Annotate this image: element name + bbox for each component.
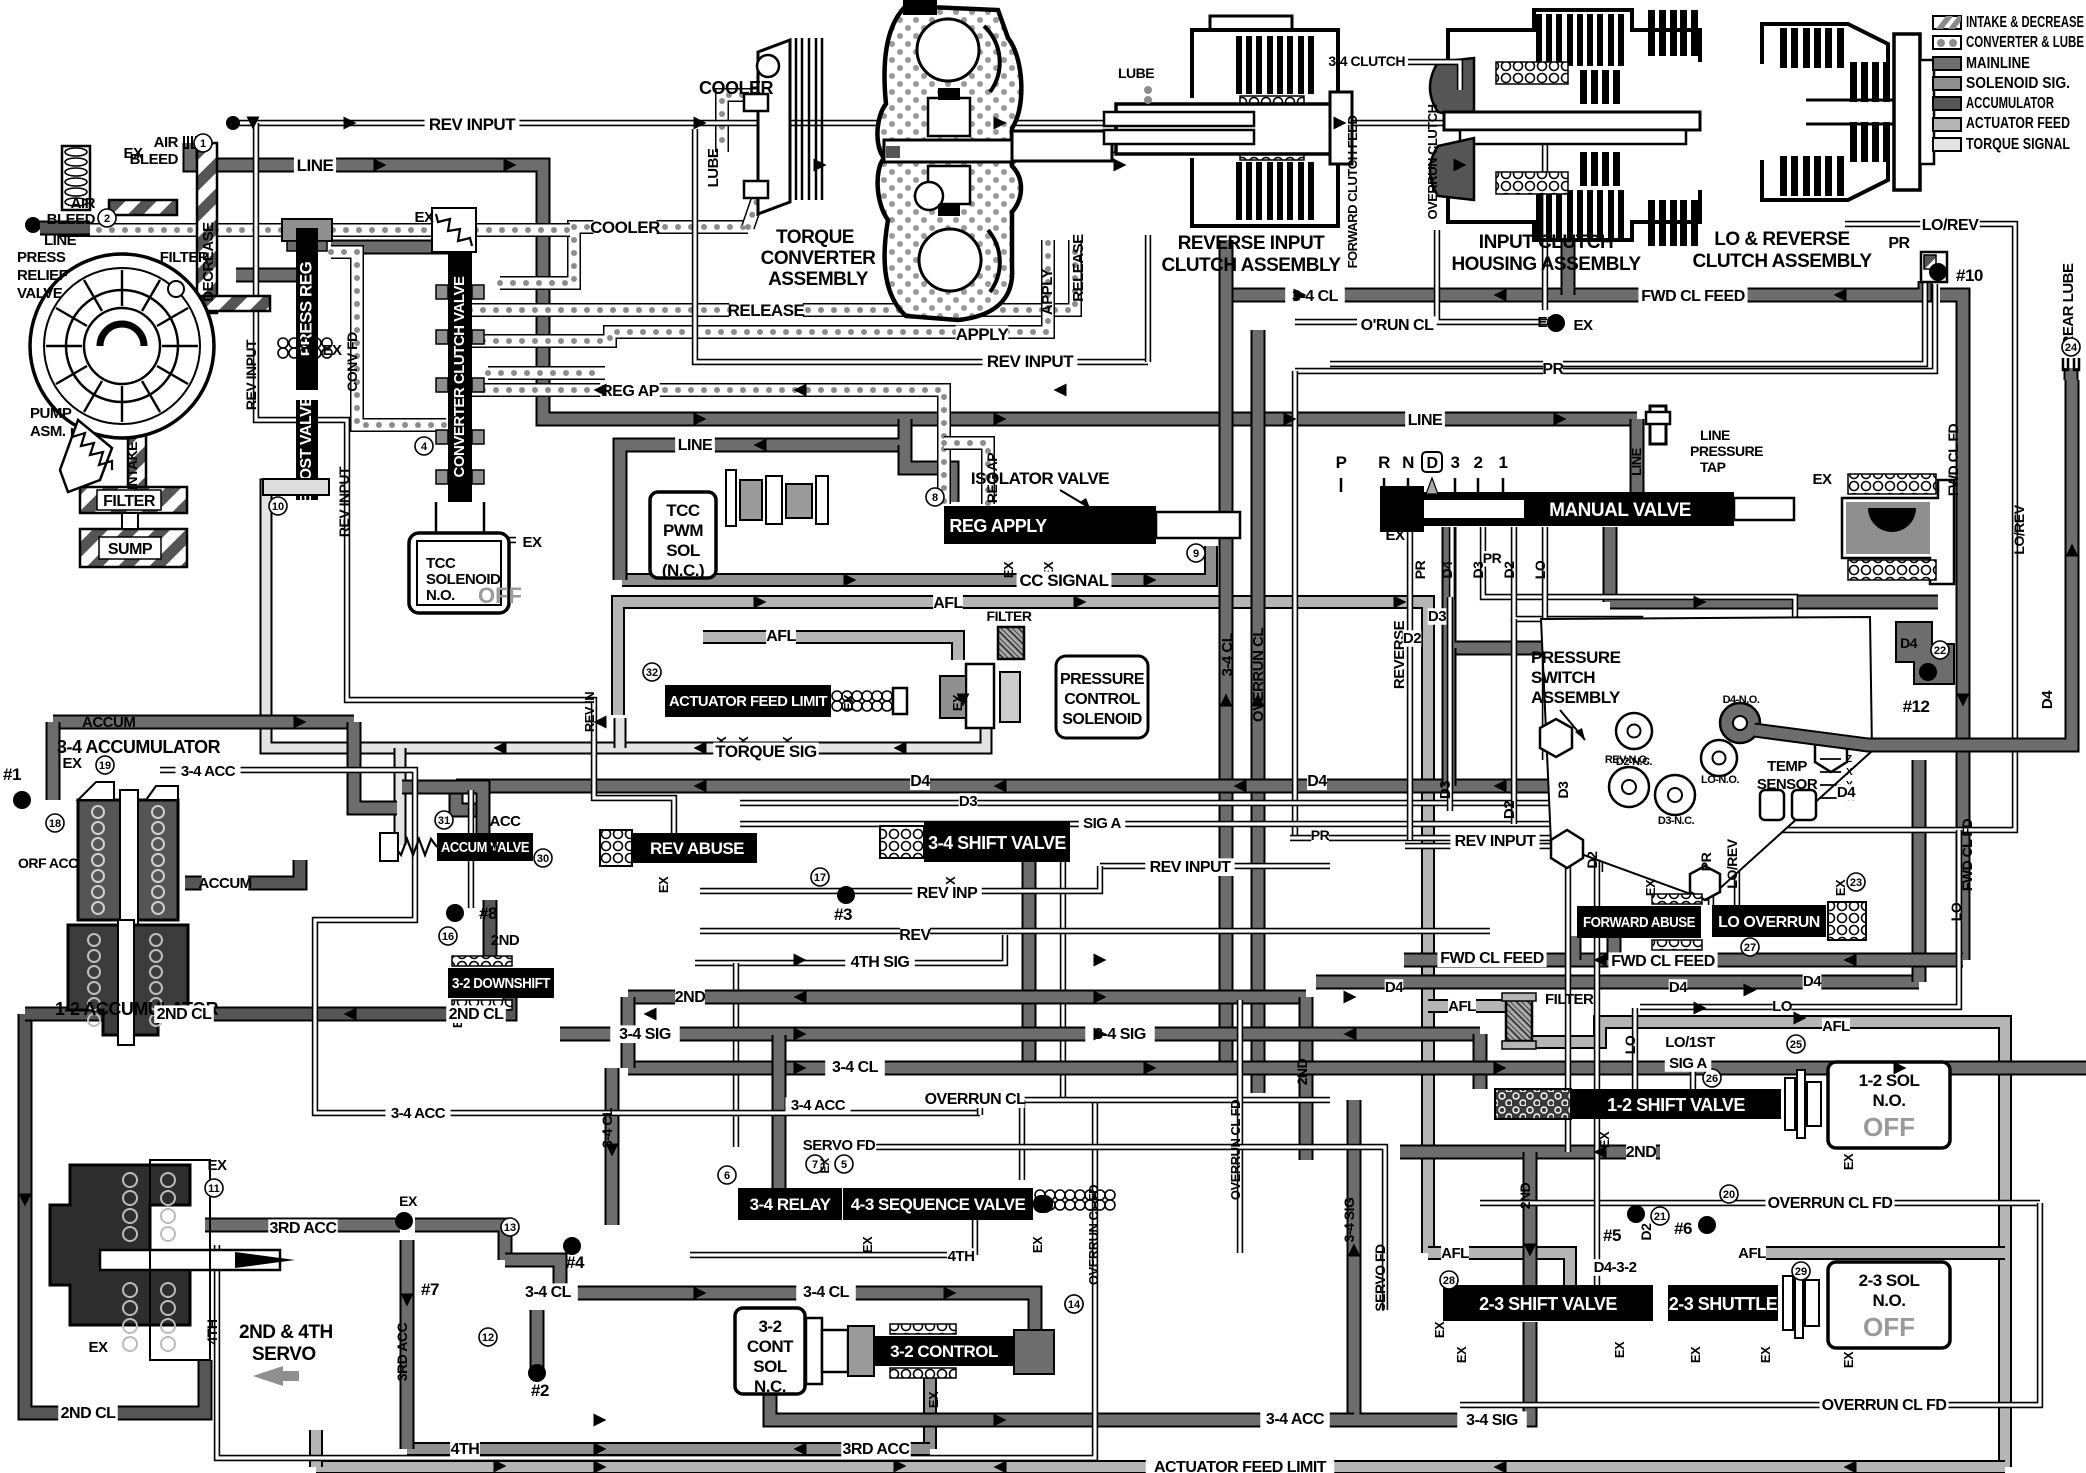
wire 3-4 CL drop [605,1068,620,1225]
orifice 12 cluster [1896,622,1954,684]
wire FWD CL FEED e [1740,281,1925,295]
svg-text:2ND CL: 2ND CL [157,1006,213,1023]
1-2 accumulator [68,920,188,1045]
svg-text:17: 17 [814,872,826,884]
valve 2-3 SHUTTLE [1668,1285,1778,1321]
svg-text:FILTER: FILTER [103,493,156,510]
svg-text:D3-N.C.: D3-N.C. [1658,815,1695,827]
solenoid 1-2 SOL [1828,1062,1950,1148]
svg-text:LO OVERRUN: LO OVERRUN [1718,914,1820,931]
svg-text:2ND CL: 2ND CL [449,1006,505,1023]
orifice 26 [1703,1069,1721,1087]
wire 3RD ACC up [923,1372,937,1449]
svg-text:3-4 RELAY: 3-4 RELAY [750,1195,832,1214]
svg-text:PRESSURE: PRESSURE [1690,443,1763,459]
svg-text:2ND & 4TH: 2ND & 4TH [239,1322,333,1343]
svg-text:APPLY: APPLY [1039,268,1056,315]
wire OVERRUN CL thin [980,1100,1330,1115]
svg-text:2-3 SOL: 2-3 SOL [1859,1271,1920,1290]
svg-text:D2: D2 [1501,801,1518,819]
wire D4ch [1449,527,1455,600]
wire REV INPUT psa [1405,846,1600,872]
valve CONVERTER CLUTCH VALVE [448,252,472,502]
svg-text:EX: EX [926,1391,941,1408]
wire D4 up right [1912,760,1927,982]
svg-text:3-2: 3-2 [758,1317,781,1336]
wire tcc ex [460,537,516,543]
svg-text:2ND: 2ND [675,989,706,1006]
wire REG AP branch [944,443,988,504]
svg-text:ORF ACC: ORF ACC [18,855,78,871]
svg-text:CC SIGNAL: CC SIGNAL [1020,571,1109,590]
valve FORWARD ABUSE [1577,906,1701,938]
svg-text:TAP: TAP [1700,459,1726,475]
svg-text:LINE: LINE [1408,412,1443,429]
svg-text:3-4 CLUTCH: 3-4 CLUTCH [1328,53,1405,69]
check ball 10 [1929,263,1947,281]
wire FWD CL FD vert [1940,295,1963,960]
wire 3RD ACC w [205,1218,400,1233]
svg-text:4TH: 4TH [948,1248,975,1265]
wire LO ch [1632,1008,1638,1089]
svg-text:4-3 SEQUENCE VALVE: 4-3 SEQUENCE VALVE [851,1195,1026,1214]
check ball ex [1547,314,1565,332]
wire D4 down [1442,648,1457,786]
svg-text:PR: PR [1888,235,1910,252]
svg-text:SERVO: SERVO [252,1344,316,1365]
valve 2-3 SHIFT VALVE [1443,1285,1653,1321]
wire OVERRUN CL FD row [1480,1200,2040,1206]
svg-text:LUBE: LUBE [705,148,722,187]
wire PR lo stub [1708,840,1714,905]
svg-text:3RD ACC: 3RD ACC [842,1441,910,1458]
check ball 12 [1919,663,1937,681]
wire conv shaft lube [1015,139,1180,153]
svg-text:D2: D2 [1584,851,1600,869]
svg-text:MAINLINE: MAINLINE [1966,55,2030,72]
wire REV INPUT mid [695,129,1148,362]
svg-text:1-2 SHIFT VALVE: 1-2 SHIFT VALVE [1607,1095,1745,1115]
pressure control solenoid [940,656,1148,738]
wire ORUN CL [1437,230,1548,322]
svg-text:3-4 ACCUMULATOR: 3-4 ACCUMULATOR [57,737,221,757]
wire AFL main [618,602,1428,1253]
wire 3-4CL FWD CL FEED w [1226,288,1640,303]
check ball 4 [563,1237,581,1255]
wire REV INP [700,866,1100,891]
3-4 accumulator [78,782,178,930]
valve REV ABUSE [633,833,757,863]
svg-text:4TH: 4TH [204,1319,220,1344]
svg-text:6: 6 [724,1170,730,1182]
orifice 32 [643,663,661,681]
solenoid 3-2 CONT SOL [735,1308,805,1396]
svg-text:FWD CL FEED: FWD CL FEED [1641,288,1745,305]
valve 3-4 RELAY [738,1188,842,1220]
svg-text:ACCUMULATOR: ACCUMULATOR [1966,95,2054,112]
svg-text:VALVE: VALVE [17,285,63,302]
pipe decrease vert [197,143,217,313]
svg-text:5: 5 [841,1159,847,1171]
svg-text:4TH: 4TH [451,1441,480,1458]
pipe intake duct [128,434,146,500]
svg-text:4TH SIG: 4TH SIG [851,954,910,971]
svg-text:SERVO FD: SERVO FD [1372,1244,1388,1312]
svg-text:P: P [1336,453,1347,472]
wire D3 drop [1447,597,1453,811]
svg-text:#6: #6 [1674,1219,1692,1238]
svg-text:CLUTCH ASSEMBLY: CLUTCH ASSEMBLY [1162,255,1342,276]
ccv spring [436,214,472,246]
wire decrease-gray [236,268,310,283]
svg-text:OFF: OFF [478,583,522,608]
svg-text:REV: REV [899,927,931,944]
svg-text:EX: EX [1833,879,1848,896]
svg-text:REV INPUT: REV INPUT [987,352,1074,371]
wire 2ND drop [1299,997,1314,1160]
svg-text:LO: LO [1622,1035,1638,1054]
svg-text:D4: D4 [1900,635,1918,651]
valve 3-2 CONTROL [874,1336,1014,1366]
svg-text:D4-N.O.: D4-N.O. [1723,694,1760,706]
svg-text:LO: LO [1948,902,1964,921]
wire ts branch [614,718,627,748]
svg-text:TORQUE: TORQUE [776,227,854,248]
wire fwd vert [1561,240,1576,295]
svg-text:29: 29 [1795,1266,1807,1278]
wire ov drop [1019,1100,1025,1180]
svg-text:ASSEMBLY: ASSEMBLY [1531,688,1621,707]
svg-text:REV INPUT: REV INPUT [429,115,516,134]
wire 4TH stub [690,1252,975,1258]
wire LO/1ST ch [1690,1058,1696,1089]
svg-text:SIG A: SIG A [1669,1055,1707,1072]
wire APPLY [470,240,1048,341]
svg-text:EX: EX [1688,1346,1703,1363]
cooler [744,38,822,214]
wire PR long [1330,252,1925,364]
svg-text:CONVERTER: CONVERTER [761,248,877,269]
svg-text:EX: EX [841,694,856,711]
wire vert 628 [621,997,636,1068]
svg-text:LO/REV: LO/REV [1922,217,1979,234]
svg-text:LINE: LINE [1700,427,1730,443]
orifice 28 [1440,1271,1458,1289]
wire 2ND CL a [25,1007,155,1022]
wire LINE to reg apply [905,445,952,502]
wire 2ND CL left [25,1014,205,1413]
svg-text:PRESS: PRESS [17,249,66,266]
svg-text:D4: D4 [1837,784,1856,801]
orifice 22 [1931,641,1949,659]
svg-text:22: 22 [1934,645,1946,657]
svg-text:(N.C.): (N.C.) [662,561,704,580]
svg-text:INPUT CLUTCH: INPUT CLUTCH [1479,232,1613,253]
svg-text:EX: EX [1030,1236,1045,1253]
svg-text:EX: EX [1537,314,1557,331]
input clutch housing assembly [1430,10,1700,246]
orifice 23 [1847,873,1865,891]
svg-text:3-4 ACC: 3-4 ACC [391,1105,446,1122]
wire REVERSE ch [1407,527,1413,840]
svg-text:D3: D3 [959,793,977,810]
pipe FILTER body [80,487,187,513]
ccv tail [436,502,484,560]
svg-text:EX: EX [1841,1153,1856,1170]
orifice 17 [811,868,829,886]
orifice 5 [835,1155,853,1173]
orifice 19 [96,756,114,774]
line pressure tap [1646,406,1670,444]
svg-text:PR: PR [1412,560,1428,579]
svg-text:OVERRUN CL FD: OVERRUN CL FD [1086,1185,1101,1285]
svg-text:LINE: LINE [44,232,77,249]
svg-text:3-4 ACC: 3-4 ACC [1266,1411,1325,1428]
filter pcs [998,627,1024,659]
svg-text:REG AP: REG AP [984,453,1000,503]
svg-text:3-4 CL: 3-4 CL [599,1107,615,1148]
orifice 6 [718,1166,736,1184]
svg-text:3-2 DOWNSHIFT: 3-2 DOWNSHIFT [452,976,551,992]
valve LO OVERRUN [1712,905,1826,937]
manual valve [1380,486,1794,532]
wire D4 row2 [1316,975,1919,990]
svg-text:REG APPLY: REG APPLY [949,516,1047,536]
wire REV [700,928,1490,934]
orifice 21 [1651,1207,1669,1225]
svg-text:32: 32 [646,667,658,679]
svg-text:AFL: AFL [933,595,963,612]
valve 4-3 SEQUENCE VALVE [843,1188,1033,1220]
torque converter assembly [877,0,1112,320]
wire pressreg-ccv [331,240,452,255]
svg-text:SOLENOID SIG.: SOLENOID SIG. [1966,75,2070,92]
svg-text:27: 27 [1744,942,1756,954]
wire 2ND row [1400,1145,1660,1160]
svg-text:FILTER: FILTER [987,608,1032,624]
svg-text:LO/REV: LO/REV [2011,504,2027,554]
svg-text:16: 16 [442,931,454,943]
press relief valve [25,146,90,233]
svg-text:SWITCH: SWITCH [1531,668,1595,687]
svg-text:3-4 ACC: 3-4 ACC [181,763,236,780]
wire 2ND drop 2-3 [1523,1152,1538,1285]
svg-text:21: 21 [1654,1211,1666,1223]
svg-text:20: 20 [1723,1189,1735,1201]
svg-text:3RD ACC: 3RD ACC [394,1323,410,1382]
wire D2ch [1514,527,1640,678]
svg-text:#5: #5 [1603,1226,1621,1245]
svg-text:SIG A: SIG A [1083,815,1121,832]
svg-text:2ND: 2ND [491,932,520,949]
wire afl up [309,1430,323,1467]
solenoid TCC PWM SOL [650,492,716,580]
svg-text:APPLY: APPLY [956,325,1010,344]
svg-text:CONVERTER CLUTCH VALVE: CONVERTER CLUTCH VALVE [451,276,468,477]
svg-text:PUMP: PUMP [30,405,72,422]
svg-text:TCC: TCC [426,555,456,572]
svg-text:CONV FD: CONV FD [344,332,360,392]
svg-text:31: 31 [438,815,450,827]
orifice 10 [1921,252,1947,282]
svg-text:3-4 CL: 3-4 CL [1219,633,1236,676]
orifice 31 [435,811,453,829]
orifice 10 [269,497,287,515]
svg-text:REV INPUT: REV INPUT [1455,833,1537,850]
wire valve drop 2 thin [1060,862,1066,1100]
wire CONV FD dotted [331,252,446,425]
orifice 20 [1720,1185,1738,1203]
svg-text:8: 8 [932,492,938,504]
wire 2ND CL b [212,1007,448,1022]
wire LO/REV [1760,224,2015,830]
wire 2ND CL c [500,998,510,1014]
svg-text:#7: #7 [421,1280,439,1299]
svg-text:EX: EX [1812,471,1832,488]
orifice 24 [2062,338,2080,356]
svg-text:TORQUE SIG: TORQUE SIG [715,742,817,761]
orifice 11 [205,1179,223,1197]
svg-text:D3: D3 [1437,781,1454,799]
wire LO/REV stub [1734,830,1740,905]
solenoid 2-3 SOL [1828,1262,1950,1348]
wire LINE main [190,143,1637,419]
svg-text:PR: PR [1311,827,1330,843]
check ball 1 [13,791,31,809]
svg-text:RELEASE: RELEASE [1070,234,1087,302]
svg-text:FWD CL FEED: FWD CL FEED [1440,950,1544,967]
svg-text:AFL: AFL [766,628,796,645]
wire rear lube stub [2064,368,2079,380]
svg-text:ACTUATOR FEED LIMIT: ACTUATOR FEED LIMIT [1154,1459,1327,1473]
svg-text:LO & REVERSE: LO & REVERSE [1714,229,1849,250]
svg-text:REV IN: REV IN [582,692,597,732]
wire 3-4 ACC bottom [770,1393,1354,1420]
svg-text:BLEED: BLEED [130,151,179,168]
wire TS to accum valve [394,748,407,845]
orifice 7 [806,1155,824,1173]
check ball 8 [446,904,464,922]
wire AFL to filter [703,637,958,660]
orifice 12 [479,1328,497,1346]
svg-text:TEMP: TEMP [1767,758,1807,775]
svg-text:ACCUM: ACCUM [198,875,251,892]
svg-text:1: 1 [200,138,206,150]
svg-text:EX: EX [62,755,82,772]
check ball 3 [837,886,855,904]
svg-text:REG AP: REG AP [601,383,660,400]
wire acc top port [402,787,483,833]
svg-text:CONVERTER & LUBE: CONVERTER & LUBE [1966,34,2084,51]
wire PR row [1290,835,1640,841]
svg-text:LO: LO [1772,998,1793,1015]
svg-text:EX: EX [522,534,542,551]
svg-text:Z: Z [1846,754,1852,765]
svg-text:EX: EX [322,342,342,359]
svg-text:D4: D4 [1385,979,1404,996]
wire LINE branch TCC [620,419,905,580]
isolator valve spools [726,470,828,526]
svg-text:PRESSURE: PRESSURE [1060,671,1145,688]
svg-text:MANUAL VALVE: MANUAL VALVE [1549,500,1691,521]
svg-text:LINE: LINE [678,437,713,454]
air bleed glyph [184,136,196,148]
wire relay feed [772,1035,787,1188]
wire LOch [1542,527,1548,760]
svg-text:FWD CL FD: FWD CL FD [1959,819,1975,892]
svg-text:N.O.: N.O. [426,587,455,604]
svg-text:FWD CL FEED: FWD CL FEED [1611,953,1715,970]
solenoid TCC [409,533,522,613]
wire COOLER line [500,227,748,283]
orifice 13 [501,1218,519,1236]
svg-text:9: 9 [1193,548,1199,560]
wire TORQUE SIG [266,485,986,748]
svg-text:OFF: OFF [1863,1312,1915,1342]
manual valve detent [1842,474,1954,584]
svg-text:EX: EX [399,1193,418,1209]
valve 3-4 SHIFT VALVE [924,822,1070,862]
wire D4 from MV [1449,527,1740,676]
svg-text:ACCUM: ACCUM [82,714,135,731]
svg-text:COOLER: COOLER [699,78,774,98]
svg-text:EX: EX [1573,317,1593,334]
svg-text:OVERRUN CL: OVERRUN CL [1250,628,1267,723]
svg-text:DECREASE: DECREASE [200,222,217,302]
svg-text:23: 23 [1850,877,1862,889]
svg-text:1: 1 [1499,453,1508,472]
spring [395,839,437,855]
svg-text:N.O.: N.O. [1873,1091,1906,1110]
valve PRESS REG [296,228,318,390]
svg-text:3-4 SIG: 3-4 SIG [619,1026,671,1043]
svg-text:2-3 SHIFT VALVE: 2-3 SHIFT VALVE [1479,1294,1617,1314]
svg-text:EX: EX [860,1236,875,1253]
svg-text:SUMP: SUMP [108,541,153,558]
svg-text:OVERRUN CL FD: OVERRUN CL FD [1768,1195,1893,1212]
reg apply spring [1049,515,1127,535]
wire acc ch2 [468,790,474,908]
wire D2 down [1565,720,1571,1152]
svg-text:#10: #10 [1956,266,1983,285]
orifice 18 [46,814,64,832]
svg-text:CLUTCH ASSEMBLY: CLUTCH ASSEMBLY [1693,251,1873,272]
svg-text:26: 26 [1706,1073,1718,1085]
wire REG AP [470,390,944,504]
legend [1933,14,2084,153]
wire accum v [483,900,498,956]
valve ACTUATOR FEED LIMIT [665,685,831,717]
svg-text:LO: LO [1532,560,1548,579]
svg-text:D4: D4 [910,773,930,790]
svg-text:PR: PR [1542,361,1564,378]
wire 3-4 SIG long [560,1027,1480,1042]
svg-text:D2: D2 [1638,1223,1654,1241]
wire OVERRUN CL vert [1251,330,1266,1093]
svg-text:PRESSURE: PRESSURE [1531,648,1621,667]
wire AFL 2-3 right [1740,1246,2005,1260]
svg-text:EX: EX [1001,561,1016,578]
wire accum valve feed [354,722,397,808]
svg-text:1-2 SOL: 1-2 SOL [1859,1071,1920,1090]
svg-text:N: N [1402,453,1414,472]
wire ACTUATOR FEED LIMIT bottom [316,1460,2005,1473]
svg-text:LO-N.O.: LO-N.O. [1701,774,1739,786]
svg-text:2ND: 2ND [1517,1182,1533,1209]
svg-text:2ND: 2ND [1626,1144,1657,1161]
svg-text:D4: D4 [1307,773,1327,790]
svg-text:2-3 SHUTTLE: 2-3 SHUTTLE [1669,1294,1778,1314]
